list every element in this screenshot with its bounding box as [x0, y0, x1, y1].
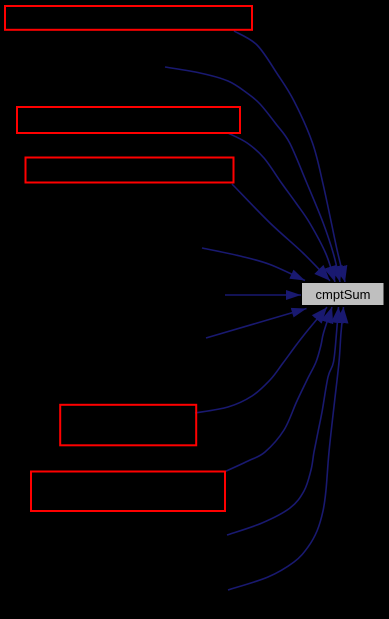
node caller box 2 (truncated, red) [17, 107, 240, 133]
wire edge: hidden caller 2 to cmptSum [165, 67, 340, 282]
wire edge: caller box 2 to cmptSum [228, 133, 335, 282]
wire edge: caller box 4 to cmptSum [195, 307, 327, 413]
wire edge: hidden caller 7 to cmptSum [206, 309, 307, 339]
wire edge: caller box 1 to cmptSum [234, 31, 345, 282]
wire edge: caller box 5 to cmptSum [224, 307, 332, 472]
node caller box 1 (truncated, red) [5, 6, 252, 30]
wire edge: hidden caller 11 to cmptSum [228, 307, 344, 590]
wire edge: caller box 3 to cmptSum [232, 184, 330, 281]
node caller box 3 (truncated, red) [26, 158, 234, 183]
node caller box 4 (truncated, red) [60, 405, 196, 446]
node caller box 5 (truncated, red) [31, 472, 225, 512]
svg-text:cmptSum: cmptSum [316, 287, 371, 302]
wire edge: hidden caller 5 to cmptSum [202, 248, 305, 281]
wire edge: hidden caller 10 to cmptSum [227, 307, 339, 535]
node cmptSum (current) [302, 283, 385, 306]
wire edge: hidden caller 6 to cmptSum [225, 294, 301, 296]
